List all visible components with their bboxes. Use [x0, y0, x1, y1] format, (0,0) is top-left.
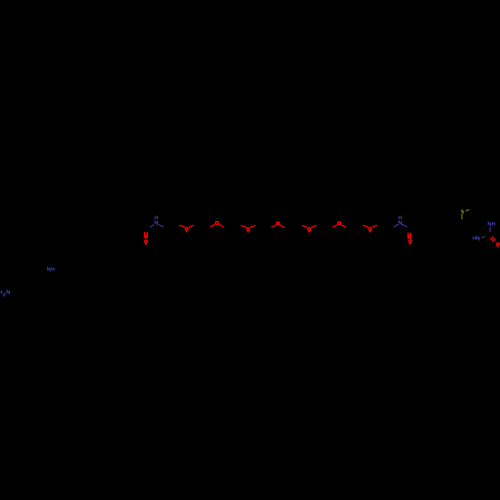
amide 2 carbonyl O label [409, 240, 412, 243]
urea N-C bond stub (horizontal) [481, 237, 485, 239]
amide 1 N-H label [155, 216, 157, 225]
PEG ether oxygen O3 [241, 225, 256, 232]
amide 1 C=O double bond [144, 232, 146, 238]
urea carbonyl O label [497, 243, 500, 246]
amide 1 N-C bond stub right [159, 225, 164, 228]
thiolate minus charge [466, 210, 470, 212]
amide 2 N-C bond stub right [402, 224, 407, 227]
S-C bond stub [461, 214, 463, 219]
urea NH label (upper) [488, 222, 495, 225]
amide 2 N-H label [399, 216, 401, 225]
thiolate S label [462, 210, 464, 213]
PEG ether oxygen O6 [333, 222, 346, 228]
amide 1 carbonyl O label [145, 240, 148, 243]
urea N-C bond stub (vertical) [489, 227, 491, 232]
PEG ether oxygen O1 [179, 225, 194, 232]
urea HN label (lower) [473, 236, 479, 239]
secondary amine NH [48, 267, 55, 270]
primary amine H2N [0, 290, 9, 296]
PEG ether oxygen O5 [302, 225, 317, 232]
PEG ether oxygen O7 [363, 225, 378, 232]
amide 2 C=O double bond [407, 233, 409, 239]
urea C=O double bond [490, 238, 494, 242]
PEG ether oxygen O4 [271, 222, 284, 228]
amide 1 N-C bond stub left [150, 225, 154, 227]
amide 2 N-C bond stub left [394, 224, 399, 227]
PEG ether oxygen O2 [210, 221, 223, 227]
